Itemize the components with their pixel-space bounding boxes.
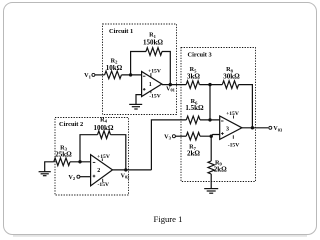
wire node to R9 (210, 136, 212, 161)
terminal V1 (92, 73, 95, 76)
svg-text:-15V: -15V (228, 142, 240, 148)
svg-text:3: 3 (226, 126, 229, 132)
wire R5 to R8 (199, 84, 222, 86)
U1 -15V supply (150, 91, 152, 93)
op-amp U2 (91, 155, 113, 186)
svg-text:V01: V01 (166, 86, 175, 92)
resistor R4 (98, 131, 111, 139)
ground (circuit 2) (39, 172, 51, 176)
node at U2 inverting input (78, 160, 81, 163)
node R5/R8 junction (208, 83, 211, 86)
svg-text:-15V: -15V (98, 182, 110, 188)
svg-text:150kΩ: 150kΩ (143, 38, 163, 46)
wire feedback left vertical (80, 135, 98, 162)
wire U1 + input to ground (136, 95, 142, 104)
svg-text:+15V: +15V (148, 68, 161, 74)
svg-text:25kΩ: 25kΩ (55, 150, 72, 158)
wire from V02 up to R6 (151, 120, 186, 170)
node U3 output / feedback (251, 126, 254, 129)
svg-text:+15V: +15V (97, 154, 110, 160)
resistor R2 (105, 71, 122, 79)
svg-text:V03: V03 (273, 126, 283, 132)
svg-text:1: 1 (149, 82, 152, 88)
node R7/R9 junction (210, 135, 213, 138)
svg-text:V02: V02 (121, 173, 130, 179)
wire R7 to U3 non-inverting input (200, 135, 220, 137)
U1 +15V supply (150, 73, 152, 77)
resistor R8 (222, 81, 238, 89)
dashed box Circuit 3 (181, 48, 256, 182)
U3 +15V supply (233, 116, 235, 119)
wire summing node vertical (209, 85, 211, 120)
terminal V2 (77, 175, 80, 178)
wire V1 to R2 (95, 74, 105, 76)
wire U1 output (162, 84, 186, 86)
wire R6 to U3 inverting input (200, 119, 220, 121)
wire U3 output (242, 127, 268, 129)
wire feedback left vertical (131, 52, 146, 75)
wire V3 to R7 (175, 135, 186, 137)
wire U2 output (113, 169, 152, 171)
U2 +15V supply (101, 158, 103, 161)
node at op-amp 1 inverting input (129, 73, 132, 76)
resistor R5 (186, 81, 199, 89)
wire feedback right vertical to output (162, 52, 170, 85)
svg-text:+15V: +15V (226, 111, 239, 117)
resistor R9 (208, 161, 214, 174)
svg-text:100kΩ: 100kΩ (94, 124, 114, 132)
node V02 (124, 168, 127, 171)
wire V2 to U2 non-inverting input (80, 176, 91, 178)
node R6 / summing junction (208, 118, 211, 121)
wire ground to R3 (45, 162, 54, 172)
svg-text:10kΩ: 10kΩ (106, 64, 123, 72)
resistor R7 (186, 132, 200, 140)
wire R9 to ground (210, 174, 212, 188)
svg-text:Circuit 1: Circuit 1 (109, 28, 133, 35)
resistor R3 (54, 158, 70, 166)
ground (circuit 3) (204, 189, 218, 194)
node V01 (169, 83, 172, 86)
op-amp U3 (220, 116, 242, 139)
dashed box Circuit 1 (103, 24, 177, 115)
wire R8 to output (feedback) (239, 85, 253, 128)
dashed box Circuit 2 (55, 118, 129, 196)
terminal V03 (269, 126, 272, 129)
svg-text:Figure 1: Figure 1 (154, 214, 183, 224)
ground (circuit 1) (129, 104, 142, 109)
svg-text:Circuit 2: Circuit 2 (59, 121, 83, 128)
svg-text:2: 2 (97, 168, 100, 174)
resistor R1 (146, 48, 162, 56)
svg-text:-15V: -15V (149, 94, 161, 100)
svg-text:1.5kΩ: 1.5kΩ (185, 104, 204, 112)
terminal V3 (172, 135, 175, 138)
op-amp U1 (142, 72, 162, 97)
svg-text:Circuit 3: Circuit 3 (188, 52, 212, 59)
U3 -15V supply (232, 135, 234, 139)
wire feedback right vertical to output (111, 135, 126, 170)
wire R2 to inverting node (121, 74, 141, 76)
svg-text:2kΩ: 2kΩ (214, 165, 227, 173)
U2 -15V supply (102, 179, 104, 183)
svg-text:30kΩ: 30kΩ (223, 72, 240, 80)
svg-text:2kΩ: 2kΩ (187, 150, 200, 158)
wire R3 to U2 inverting input (70, 161, 91, 163)
svg-text:3kΩ: 3kΩ (187, 72, 200, 80)
resistor R6 (186, 116, 200, 124)
